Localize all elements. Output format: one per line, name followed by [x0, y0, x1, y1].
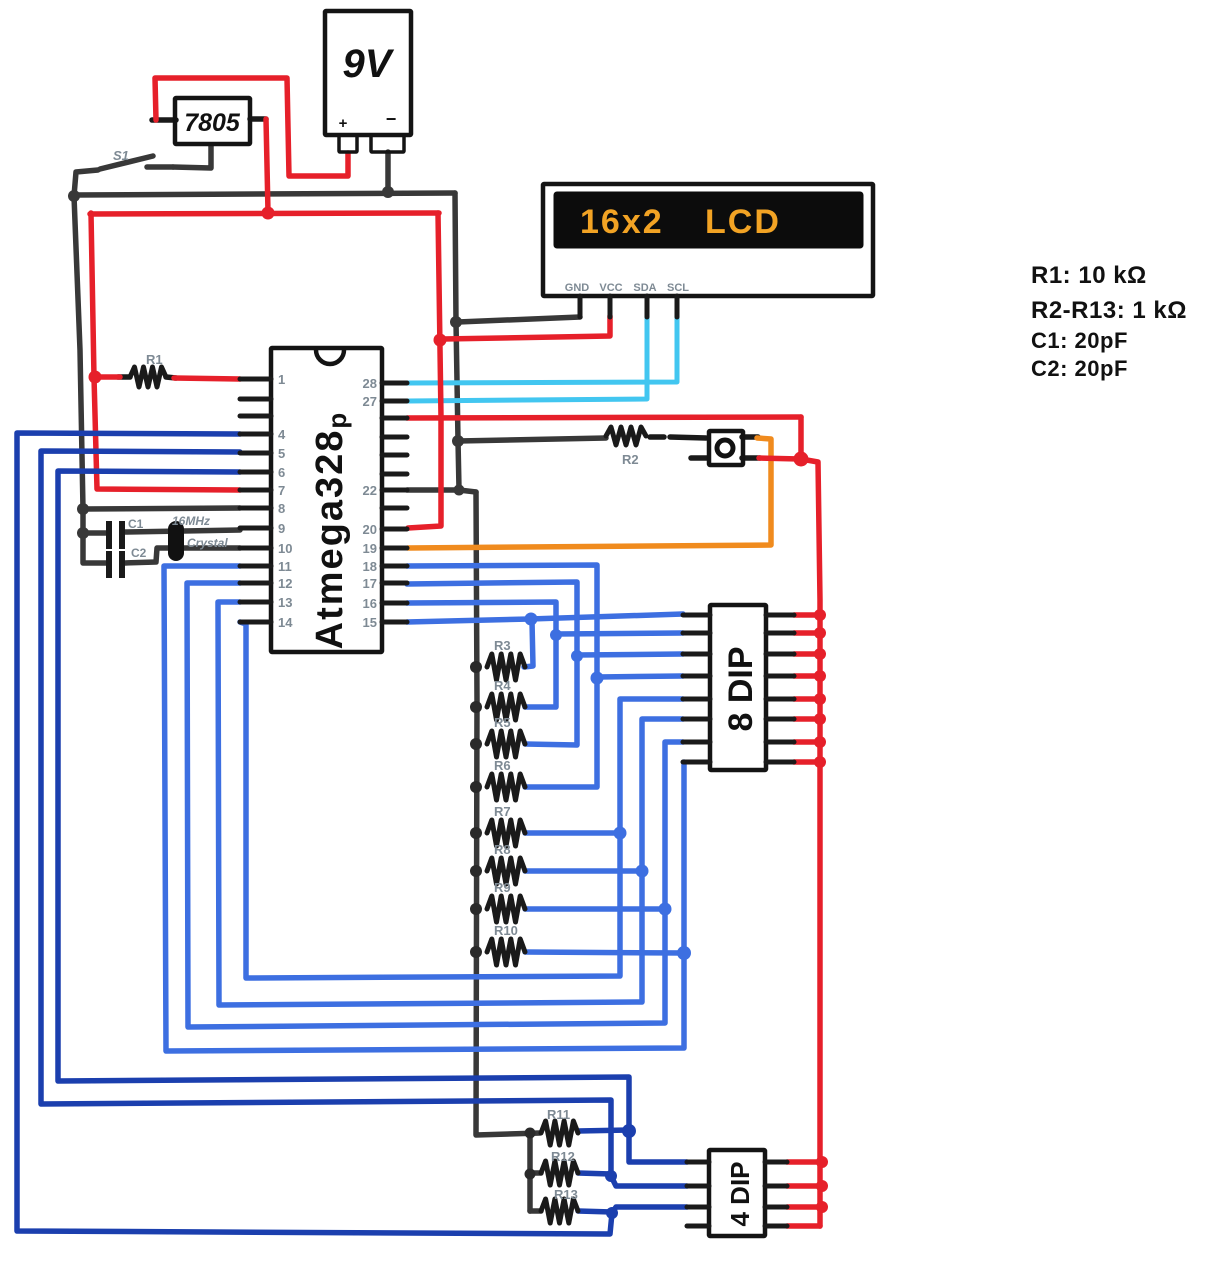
- svg-text:R12: R12: [551, 1149, 575, 1164]
- svg-text:VCC: VCC: [599, 282, 622, 294]
- svg-text:R11: R11: [547, 1107, 570, 1122]
- svg-text:13: 13: [278, 595, 292, 610]
- svg-text:GND: GND: [565, 282, 590, 294]
- svg-text:9V: 9V: [343, 42, 395, 86]
- svg-text:12: 12: [278, 576, 292, 591]
- svg-text:16: 16: [363, 596, 377, 611]
- svg-text:R3: R3: [494, 638, 511, 653]
- svg-text:R1: 10 kΩ: R1: 10 kΩ: [1031, 262, 1147, 289]
- svg-text:7: 7: [278, 483, 285, 498]
- svg-text:LCD: LCD: [705, 203, 781, 241]
- svg-text:16MHz: 16MHz: [172, 514, 210, 528]
- svg-text:14: 14: [278, 615, 293, 630]
- svg-text:4 DIP: 4 DIP: [725, 1161, 755, 1226]
- svg-text:R1: R1: [146, 352, 163, 367]
- svg-text:R9: R9: [494, 880, 511, 895]
- svg-text:6: 6: [278, 465, 285, 480]
- svg-text:R5: R5: [494, 715, 511, 730]
- svg-text:SCL: SCL: [667, 282, 689, 294]
- svg-text:C2: C2: [131, 546, 147, 560]
- svg-text:S1: S1: [113, 148, 129, 163]
- svg-text:+: +: [339, 115, 348, 132]
- svg-text:19: 19: [363, 541, 377, 556]
- svg-text:R4: R4: [494, 678, 511, 693]
- svg-text:1: 1: [278, 372, 285, 387]
- svg-text:R2-R13: 1 kΩ: R2-R13: 1 kΩ: [1031, 297, 1187, 324]
- svg-text:8: 8: [278, 501, 285, 516]
- svg-text:R2: R2: [622, 452, 639, 467]
- svg-text:11: 11: [278, 559, 292, 574]
- svg-text:R13: R13: [554, 1187, 578, 1202]
- svg-text:8 DIP: 8 DIP: [722, 646, 760, 731]
- svg-text:−: −: [386, 109, 397, 129]
- svg-text:R6: R6: [494, 758, 511, 773]
- svg-text:16x2: 16x2: [580, 203, 664, 241]
- svg-text:22: 22: [363, 483, 377, 498]
- svg-text:C1: 20pF: C1: 20pF: [1031, 328, 1128, 353]
- svg-text:R7: R7: [494, 804, 511, 819]
- svg-text:R8: R8: [494, 842, 511, 857]
- svg-text:10: 10: [278, 541, 292, 556]
- svg-text:Crystal: Crystal: [187, 536, 228, 550]
- svg-text:Atmega328p: Atmega328p: [309, 411, 352, 650]
- svg-text:27: 27: [363, 394, 377, 409]
- svg-text:9: 9: [278, 521, 285, 536]
- svg-text:18: 18: [363, 559, 377, 574]
- svg-text:R10: R10: [494, 923, 518, 938]
- svg-text:SDA: SDA: [633, 282, 656, 294]
- svg-text:17: 17: [363, 576, 377, 591]
- svg-text:C1: C1: [128, 517, 144, 531]
- svg-text:28: 28: [363, 376, 377, 391]
- svg-text:15: 15: [363, 615, 377, 630]
- svg-text:C2: 20pF: C2: 20pF: [1031, 356, 1128, 381]
- svg-text:4: 4: [278, 427, 286, 442]
- svg-text:7805: 7805: [184, 109, 241, 137]
- svg-text:20: 20: [363, 522, 377, 537]
- svg-text:5: 5: [278, 446, 285, 461]
